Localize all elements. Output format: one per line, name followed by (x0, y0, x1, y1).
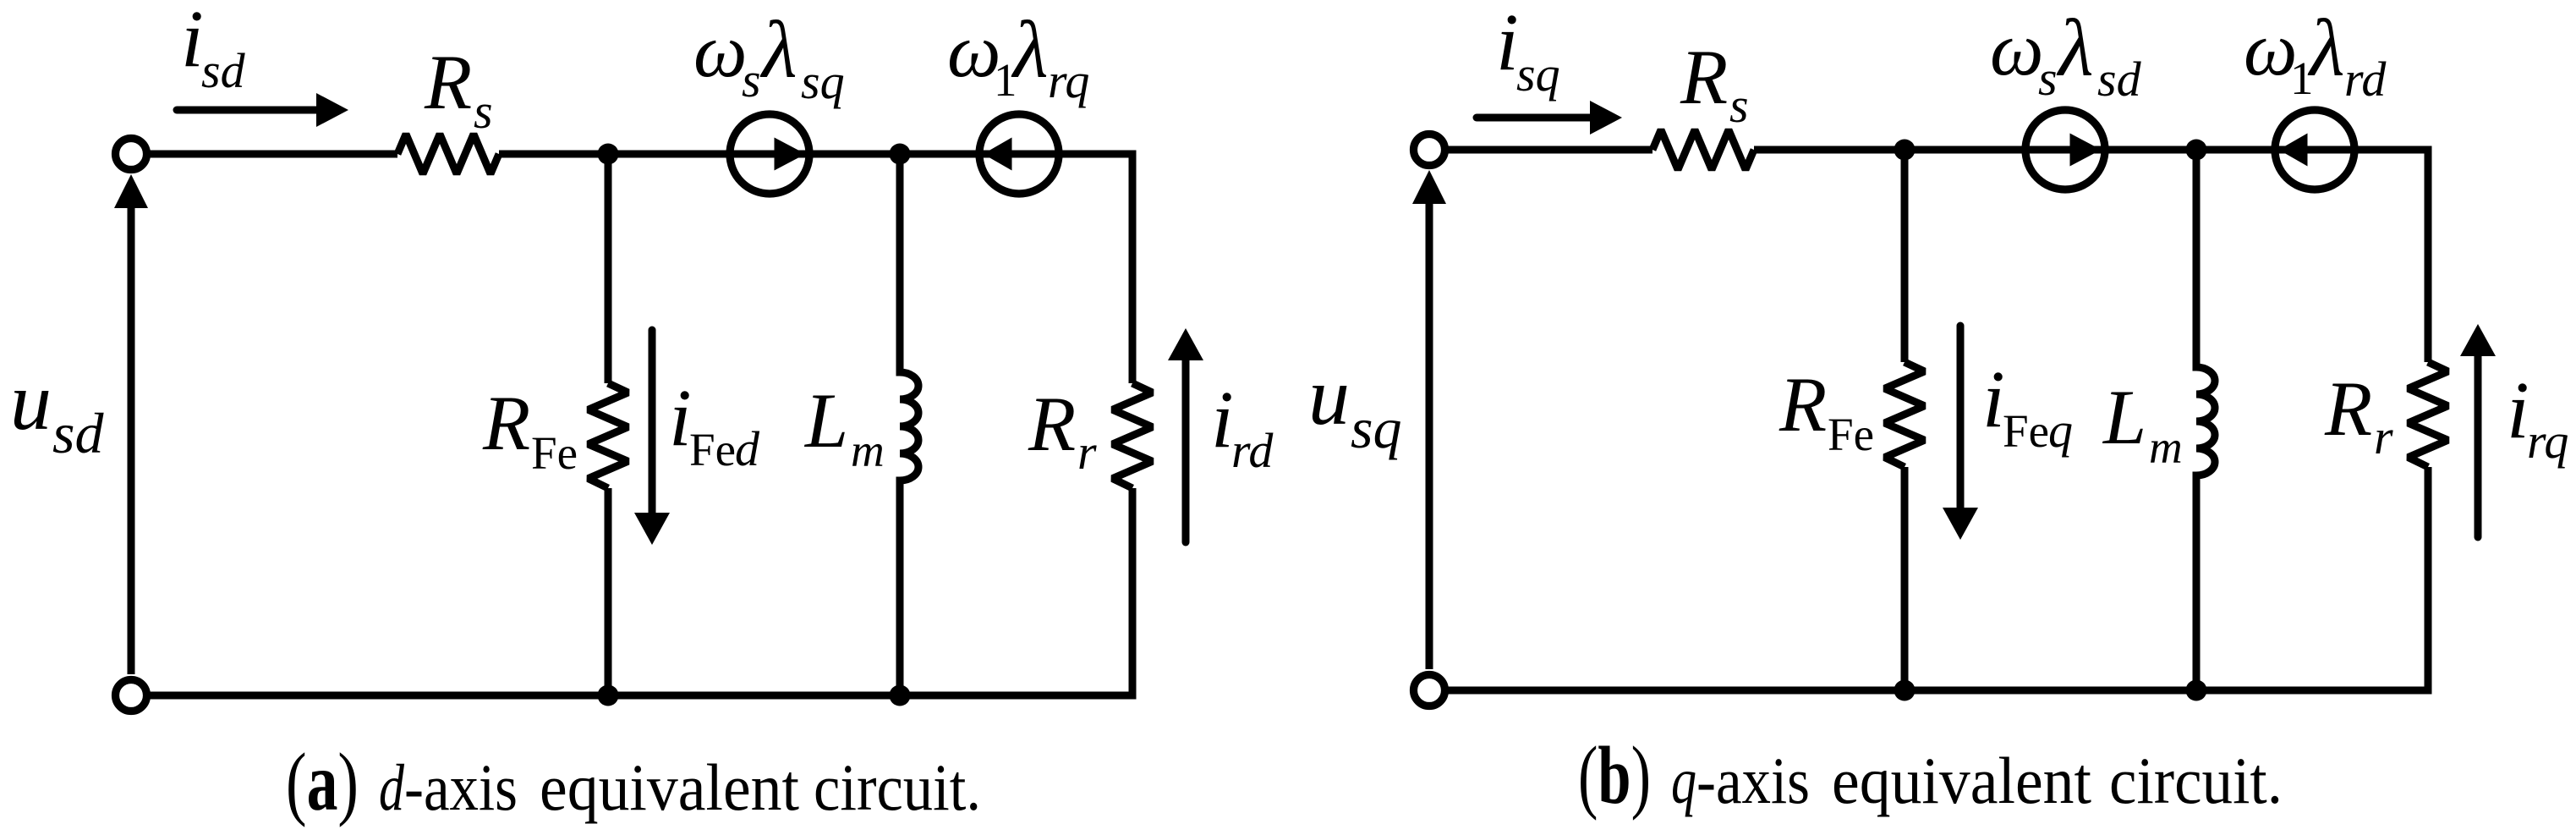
iron-loss current arrow iFeq (down) (1957, 326, 1965, 508)
svg-text:ω: ω (2244, 8, 2298, 91)
resistor RFe (1885, 362, 1925, 467)
svg-text:-axis: -axis (404, 750, 518, 824)
current source 2 arrow (left) (984, 138, 1012, 171)
rotor current arrow ird (up) (1182, 360, 1190, 542)
svg-text:i: i (2507, 365, 2529, 455)
resistor Rr (2409, 362, 2448, 467)
wire right edge bottom (2425, 467, 2432, 690)
svg-text:r: r (1077, 425, 1097, 480)
svg-text:(a): (a) (286, 737, 359, 827)
voltage arrow usd (up) (114, 174, 148, 208)
svg-text:L: L (2102, 374, 2146, 460)
node bottom RFe junction (598, 685, 619, 706)
terminal bottom-left (open circle) (1414, 675, 1445, 706)
wire top: terminal to Rs (147, 151, 397, 158)
svg-text:s: s (2038, 51, 2058, 106)
wire top: terminal to Rs (1445, 146, 1652, 154)
svg-text:d: d (735, 421, 760, 476)
current source 2 (omega_1 lambda) circle (2275, 110, 2354, 190)
branch wire RFe bottom (1901, 467, 1909, 690)
svg-text:R: R (1028, 381, 1076, 467)
wire left side (usq branch) (1426, 202, 1433, 669)
svg-text:λ: λ (2307, 3, 2345, 93)
svg-text:R: R (1680, 34, 1728, 120)
svg-text:R: R (2324, 365, 2372, 452)
svg-text:Fe: Fe (1828, 409, 1874, 460)
resistor RFe (589, 383, 628, 488)
svg-text:rd: rd (2344, 52, 2387, 107)
svg-text:i: i (1211, 374, 1234, 464)
svg-text:u: u (10, 356, 52, 448)
svg-text:Fe: Fe (689, 424, 736, 475)
stator current arrow isd (177, 107, 318, 114)
wire bottom rail (147, 692, 1137, 700)
iron-loss current arrow iFed (down) (649, 330, 656, 513)
svg-text:r: r (2374, 409, 2393, 464)
svg-text:q: q (2048, 403, 2073, 458)
wire bottom rail (1445, 687, 2432, 695)
svg-text:sq: sq (1516, 47, 1560, 102)
current source 2 (omega_1 lambda) circle (979, 114, 1059, 194)
svg-text:sd: sd (201, 43, 246, 98)
node top Lm junction (890, 144, 911, 165)
svg-text:s: s (1729, 78, 1749, 133)
svg-text:λ: λ (1011, 4, 1049, 95)
inductor Lm (900, 154, 918, 695)
svg-text:circuit.: circuit. (2109, 744, 2283, 817)
stator current arrow isq (1477, 114, 1592, 122)
wire top: Rs to right corner and down (499, 154, 1132, 383)
wire right edge bottom (1129, 488, 1137, 695)
svg-text:m: m (851, 425, 885, 476)
svg-text:ω: ω (947, 9, 1001, 93)
current source 1 arrow (right) (775, 138, 806, 171)
svg-text:rq: rq (2527, 414, 2568, 469)
svg-text:sd: sd (52, 401, 104, 465)
svg-text:i: i (669, 372, 692, 463)
svg-text:equivalent: equivalent (540, 750, 799, 824)
svg-text:R: R (424, 39, 472, 125)
voltage arrow usq (up) (1412, 170, 1446, 204)
svg-text:λ: λ (2056, 3, 2094, 93)
svg-text:Fe: Fe (531, 427, 578, 479)
branch wire RFe top (1901, 150, 1909, 362)
node bottom RFe junction (1894, 680, 1916, 701)
svg-text:m: m (2149, 421, 2183, 473)
svg-text:-axis: -axis (1696, 744, 1810, 817)
svg-text:sq: sq (801, 54, 845, 109)
svg-text:u: u (1308, 351, 1350, 442)
svg-text:i: i (1496, 0, 1519, 87)
svg-text:i: i (1982, 354, 2005, 444)
svg-text:equivalent: equivalent (1832, 744, 2091, 817)
svg-text:rd: rd (1231, 423, 1274, 478)
terminal bottom-left (open circle) (116, 680, 147, 711)
node top RFe junction (598, 144, 619, 165)
resistor Rs (1652, 130, 1754, 170)
svg-text:L: L (803, 377, 848, 464)
resistor Rr (1113, 383, 1153, 488)
terminal top-left (open circle) (1414, 135, 1445, 166)
branch wire RFe bottom (605, 488, 612, 695)
svg-text:Fe: Fe (2003, 405, 2049, 457)
inductor Lm (2196, 150, 2215, 690)
svg-text:λ: λ (759, 4, 797, 95)
terminal top-left (open circle) (116, 139, 147, 170)
node bottom Lm junction (890, 685, 911, 706)
svg-text:R: R (1779, 361, 1827, 448)
branch wire RFe top (605, 154, 612, 383)
node top Lm junction (2186, 140, 2207, 161)
svg-text:i: i (181, 0, 204, 84)
current source 1 (omega_s lambda) circle (730, 114, 809, 194)
svg-text:s: s (474, 84, 493, 139)
current source 1 (omega_s lambda) circle (2025, 110, 2105, 190)
svg-text:q: q (1671, 744, 1696, 817)
wire top: Rs to right corner and down (1754, 150, 2428, 362)
svg-text:sd: sd (2097, 52, 2142, 107)
svg-text:circuit.: circuit. (814, 750, 981, 824)
rotor current arrow irq (up) (2475, 356, 2482, 537)
svg-text:(b): (b) (1578, 730, 1651, 821)
node bottom Lm junction (2186, 680, 2207, 701)
current source 2 arrow (left) (2279, 134, 2308, 167)
svg-text:ω: ω (693, 9, 748, 93)
svg-text:rq: rq (1048, 53, 1089, 108)
svg-text:sq: sq (1351, 396, 1401, 460)
wire left side (usd branch) (128, 206, 135, 674)
current source 1 arrow (right) (2070, 134, 2102, 167)
svg-text:d: d (379, 750, 405, 824)
svg-text:s: s (742, 52, 761, 107)
resistor Rs (397, 135, 499, 174)
node top RFe junction (1894, 140, 1916, 161)
svg-text:R: R (482, 380, 530, 466)
svg-text:ω: ω (1990, 8, 2044, 91)
